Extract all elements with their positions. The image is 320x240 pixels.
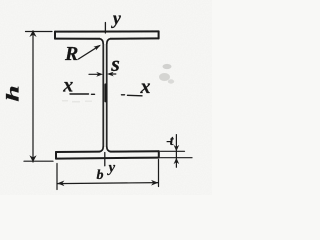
axis y (bottom segment) [104,153,106,166]
svg-text:h: h [3,85,23,102]
dimension b (bottom) [57,160,159,190]
h top arrow [29,30,36,37]
svg-text:x: x [140,76,151,98]
svg-text:s: s [110,51,120,76]
scan smudge near right middle [159,64,174,84]
web [103,44,107,147]
bottom fillets [100,147,111,152]
dimension t (right) [160,135,192,168]
t down arrow [174,145,180,151]
b left arrow [57,181,64,187]
paper background [0,0,212,195]
svg-text:b: b [97,168,104,183]
svg-text:y: y [111,8,122,28]
b right arrow [151,180,158,186]
h bottom arrow [29,155,36,162]
web interior tone [104,44,107,147]
R arrowhead [94,45,101,51]
svg-text:y: y [107,160,116,176]
svg-text:x: x [62,75,73,97]
paper noise [0,0,212,195]
arrowheads [29,30,179,186]
top flange [55,31,159,38]
dimension h (left) [24,31,53,162]
bottom flange [56,151,159,158]
s left arrow [96,72,103,77]
t up arrow [174,158,180,164]
axis y (top segment) [104,23,106,34]
s right arrow [107,72,114,77]
axis x-x dash-dot [70,85,142,102]
svg-text:R: R [64,43,78,65]
top fillets R [100,39,111,44]
dimension s arrows tails [89,73,116,75]
faint speckle band [62,100,92,103]
R leader line [79,46,100,59]
